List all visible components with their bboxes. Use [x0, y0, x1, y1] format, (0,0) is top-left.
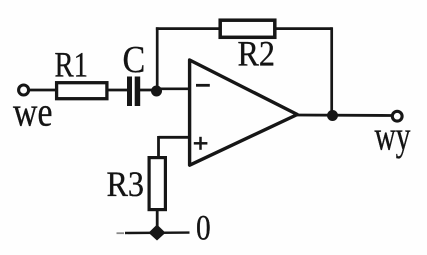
op-amp U1 triangle [190, 60, 298, 165]
svg-text:wy: wy [375, 112, 411, 158]
wire node A to op-amp inverting input [156, 87, 189, 90]
ground line [125, 231, 190, 234]
junction node A dot [151, 86, 162, 97]
ground node diamond [149, 225, 166, 241]
wire op-amp noninverting input horizontal [159, 136, 191, 139]
wire node A up to feedback rail [156, 27, 159, 91]
junction output node dot [327, 110, 338, 121]
svg-text:R1: R1 [55, 45, 89, 85]
wire feedback rail down to output node [330, 27, 333, 115]
svg-text:R2: R2 [238, 34, 276, 74]
wire we to R1 [29, 89, 57, 92]
input terminal we [19, 85, 29, 95]
resistor R3 [149, 158, 165, 210]
op-amp plus sign vertical [199, 137, 202, 150]
output terminal wy [392, 111, 402, 121]
wire R1 to C [107, 89, 128, 92]
svg-text:we: we [13, 88, 53, 134]
svg-text:0: 0 [196, 208, 211, 248]
resistor R1 [57, 83, 107, 99]
svg-text:C: C [123, 39, 146, 81]
wire feedback rail top [156, 27, 332, 30]
capacitor C left plate [127, 77, 132, 107]
capacitor C right plate [135, 77, 141, 107]
ground line faint left tail [117, 232, 125, 234]
wire op-amp output to wy terminal [296, 114, 392, 117]
op-amp minus sign [196, 84, 210, 87]
op-amp plus sign horizontal [194, 142, 208, 145]
svg-text:R3: R3 [107, 164, 145, 204]
wire C to node A [140, 89, 157, 92]
wire R3 to ground [156, 210, 159, 230]
wire noninverting input down to R3 [157, 136, 160, 157]
resistor R2 [220, 20, 275, 37]
